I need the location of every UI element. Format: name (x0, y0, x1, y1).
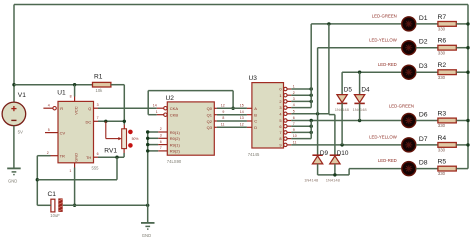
pin 5 stub U1 CV (45, 132, 58, 134)
svg-text:13: 13 (240, 116, 244, 120)
wire R6 to rail (456, 47, 468, 49)
node TH branch (115, 156, 118, 159)
wire red2 step up (348, 169, 350, 175)
wire Q2 to C (217, 120, 247, 122)
svg-text:Q3: Q3 (207, 125, 213, 130)
svg-text:555: 555 (92, 165, 100, 170)
wire top +5V rail (14, 4, 468, 6)
svg-text:2: 2 (279, 99, 281, 104)
ground GND mid (141, 222, 155, 224)
svg-text:12: 12 (221, 103, 225, 107)
svg-text:11: 11 (293, 141, 297, 145)
svg-text:LED-RED: LED-RED (378, 158, 397, 163)
svg-text:VCC: VCC (73, 106, 78, 115)
node out7 (310, 131, 313, 134)
svg-text:330: 330 (438, 148, 446, 153)
wire R0(2) (148, 137, 159, 139)
resistor R4 (438, 143, 456, 148)
battery V1 (2, 102, 26, 126)
diode D10 (330, 156, 340, 164)
svg-text:R1: R1 (94, 74, 103, 81)
wire C1 left (37, 204, 51, 206)
svg-text:9: 9 (293, 128, 295, 132)
svg-text:10uF: 10uF (50, 213, 60, 218)
svg-text:7: 7 (160, 146, 162, 150)
wire row2 yellow1 (318, 47, 402, 49)
svg-text:74LS90: 74LS90 (167, 159, 182, 164)
wire TH down (116, 157, 118, 180)
svg-text:R9(2): R9(2) (170, 149, 181, 154)
node DC wiper (104, 120, 107, 123)
wire red1 to D5 (341, 72, 343, 95)
svg-text:Q: Q (88, 106, 91, 111)
svg-text:GND: GND (73, 153, 78, 162)
node mid GND junction (146, 204, 149, 207)
wire D3 to R2 (416, 71, 438, 73)
LED D7 (402, 138, 416, 152)
pin 4 stub U1 R (43, 107, 53, 109)
svg-text:C: C (254, 119, 257, 124)
wire CKB feedback (148, 114, 157, 116)
wire D5 to row5 (341, 103, 343, 145)
wiper RV1 (105, 121, 107, 138)
wire red1 to D4 (359, 72, 361, 95)
pin 6 stub R9(1) (158, 144, 167, 146)
node out1 (310, 94, 313, 97)
wire D10 branch down (328, 24, 330, 115)
svg-text:7: 7 (293, 122, 295, 126)
svg-text:U2: U2 (166, 95, 175, 102)
pin 12 stub Q0 (214, 107, 217, 109)
wire right +5V rail (467, 5, 469, 169)
wire V1 positive to rail (13, 5, 15, 103)
LED D8 (402, 162, 416, 176)
pin stub RV1 bottom (123, 149, 125, 153)
svg-text:330: 330 (438, 75, 446, 80)
node out2 (310, 100, 313, 103)
wire Q3 to D (217, 126, 247, 128)
wire R2 to rail (456, 71, 468, 73)
wire row1 green1 (311, 23, 401, 25)
wire Q0 to A (217, 107, 247, 109)
svg-text:R3: R3 (438, 111, 447, 118)
svg-text:8: 8 (222, 116, 224, 120)
svg-text:4: 4 (293, 103, 295, 107)
node R0(2) (146, 137, 149, 140)
svg-text:74145: 74145 (248, 152, 260, 157)
svg-text:10k: 10k (96, 88, 104, 93)
node TR TH junction (36, 178, 39, 181)
svg-text:6: 6 (160, 140, 162, 144)
svg-text:LED-GREEN: LED-GREEN (389, 104, 414, 109)
svg-text:D: D (254, 125, 257, 130)
svg-text:330: 330 (438, 171, 446, 176)
wire U1 TH (98, 156, 124, 158)
wire V1 negative (13, 126, 15, 169)
svg-text:1N4148: 1N4148 (326, 178, 341, 183)
svg-text:A: A (254, 106, 257, 111)
wire U1 VCC up (74, 85, 76, 97)
wire D2 to R6 (416, 47, 438, 49)
LED D1 (402, 17, 416, 31)
pin 3 stub R0(2) (158, 137, 167, 139)
node DC RV1 top (123, 120, 126, 123)
node R9(2) (146, 149, 149, 152)
wire yellow1 bus down (317, 48, 319, 156)
wire R3 to rail (456, 120, 468, 122)
wire R5 to rail (456, 168, 468, 170)
control RV1 up button (128, 130, 133, 135)
svg-text:1: 1 (69, 169, 71, 173)
svg-text:5: 5 (279, 118, 281, 123)
node row3 D4 branch (358, 71, 361, 74)
node GND C1 junction (73, 204, 76, 207)
svg-text:2: 2 (293, 91, 295, 95)
svg-text:2: 2 (47, 151, 49, 155)
node rail R7 (466, 22, 469, 25)
svg-text:CKA: CKA (170, 106, 179, 111)
wire Q1 to B (217, 114, 247, 116)
wire U1 DC (98, 120, 124, 122)
svg-text:TR: TR (60, 153, 65, 158)
svg-text:R2: R2 (438, 62, 447, 69)
wire C1 to GND (63, 204, 148, 206)
svg-text:D6: D6 (419, 111, 428, 118)
svg-text:5: 5 (48, 128, 50, 132)
svg-text:7: 7 (279, 130, 281, 135)
svg-text:6: 6 (293, 116, 295, 120)
wire U1 TR left (37, 155, 50, 157)
capacitor C1 (51, 199, 55, 212)
svg-text:RV1: RV1 (104, 148, 117, 155)
wire output 7 (291, 131, 311, 133)
wire U2 reset rail (147, 132, 149, 205)
node R0(1) (146, 130, 149, 133)
svg-text:1: 1 (156, 110, 158, 114)
svg-text:3: 3 (160, 134, 162, 138)
diode D5 (337, 95, 347, 103)
wire D6 to R3 (416, 120, 438, 122)
svg-text:14: 14 (153, 103, 157, 107)
svg-text:D2: D2 (419, 39, 428, 46)
svg-text:DC: DC (86, 119, 92, 124)
node R9(1) (146, 143, 149, 146)
svg-text:7: 7 (97, 116, 99, 120)
wire D9 anode down (317, 164, 319, 175)
wire D1 to R7 (416, 23, 438, 25)
control RV1 down button (128, 143, 133, 148)
pin 14 stub B (247, 114, 252, 116)
node rail R3 (466, 119, 469, 122)
node out4 yellow1 (316, 112, 319, 115)
ground GND V1 (7, 167, 21, 169)
resistor R7 (438, 22, 456, 27)
svg-text:D10: D10 (337, 150, 349, 157)
node row1 D10 branch (327, 22, 330, 25)
node out6 (310, 125, 313, 128)
node out5 (310, 119, 313, 122)
node U1 VCC tap (73, 83, 76, 86)
svg-text:CV: CV (60, 130, 66, 135)
svg-text:CKB: CKB (170, 112, 179, 117)
wire green2 bus (310, 121, 312, 139)
svg-text:3: 3 (279, 105, 281, 110)
svg-text:11: 11 (221, 122, 225, 126)
wire R9(2) (148, 150, 159, 152)
svg-text:R7: R7 (438, 14, 447, 21)
pin 7 stub U1 DC (94, 120, 99, 122)
svg-text:GND: GND (8, 179, 17, 184)
svg-text:1: 1 (279, 93, 281, 98)
node out0 (310, 87, 313, 90)
pin stub RV1 top (123, 125, 125, 129)
pin 7 stub R9(2) (158, 150, 167, 152)
node rail R2 (466, 71, 469, 74)
LED D2 (402, 41, 416, 55)
pin 1 stub U1 GND (74, 163, 76, 168)
pin 8 stub U1 VCC (74, 97, 76, 102)
wire GND stem (147, 205, 149, 223)
node rail R4 (466, 143, 469, 146)
svg-text:330: 330 (438, 123, 446, 128)
diode D9 (312, 156, 322, 164)
node D10 anode (333, 173, 336, 176)
pin 8 stub Q2 (214, 120, 217, 122)
svg-text:9: 9 (222, 110, 224, 114)
svg-text:4: 4 (48, 103, 50, 107)
decoder U3 74145 body (252, 83, 284, 148)
svg-text:8: 8 (279, 136, 281, 141)
svg-text:LED-YELLOW: LED-YELLOW (369, 37, 398, 42)
node Q0 feedback (231, 107, 234, 110)
svg-text:D7: D7 (419, 136, 428, 143)
wire U1 GND down (74, 168, 76, 206)
svg-text:LED-GREEN: LED-GREEN (372, 14, 397, 19)
svg-text:1: 1 (293, 85, 295, 89)
wire output 5 row4 green2 (291, 120, 401, 122)
pin 15 stub A (247, 107, 252, 109)
resistor R6 (438, 45, 456, 50)
svg-text:D8: D8 (419, 160, 428, 167)
svg-text:1N4148: 1N4148 (304, 178, 319, 183)
pin 12 stub D (247, 126, 252, 128)
svg-text:3: 3 (97, 103, 99, 107)
svg-text:D3: D3 (419, 63, 428, 70)
node rail R6 (466, 46, 469, 49)
wire R4 to rail (456, 144, 468, 146)
pin 1 stub CKB (157, 114, 164, 116)
wire RV1 bottom to TH (123, 153, 125, 157)
svg-text:U1: U1 (57, 90, 66, 97)
svg-text:15: 15 (240, 103, 244, 107)
svg-text:D5: D5 (344, 87, 353, 94)
resistor R3 (438, 118, 456, 123)
wire output 2 (291, 100, 311, 102)
node V1 branch (12, 83, 15, 86)
wire red2 anode bus (318, 174, 350, 176)
svg-text:LED-RED: LED-RED (378, 62, 397, 67)
svg-text:3: 3 (293, 97, 295, 101)
svg-text:R4: R4 (438, 135, 447, 142)
wire TR down to C1 (36, 156, 38, 206)
svg-text:6: 6 (279, 124, 281, 129)
wire D4 to row4 (359, 103, 361, 120)
pin 13 stub C (247, 120, 252, 122)
svg-text:9: 9 (279, 143, 281, 148)
wire R1 to RV1 top (111, 84, 124, 86)
svg-text:14: 14 (240, 110, 244, 114)
diode D4 (354, 95, 364, 103)
svg-text:D1: D1 (419, 15, 428, 22)
svg-text:10: 10 (293, 134, 297, 138)
potentiometer RV1 body (122, 129, 127, 149)
svg-text:R9(1): R9(1) (170, 142, 181, 147)
pin 3 stub U1 Q (94, 107, 99, 109)
svg-text:5: 5 (293, 109, 295, 113)
svg-text:C1: C1 (48, 191, 57, 198)
wire R0(1) (148, 131, 159, 133)
wire output 0 (291, 88, 311, 90)
wire row3 red1 (342, 71, 401, 73)
wire R9(1) (148, 144, 159, 146)
wire green1 bus up (310, 24, 312, 108)
svg-text:5V: 5V (18, 130, 23, 135)
svg-text:LED-YELLOW: LED-YELLOW (369, 135, 398, 140)
svg-text:D4: D4 (361, 87, 370, 94)
wire TH across to TR (37, 179, 117, 181)
node D4 to row4 (358, 119, 361, 122)
svg-text:TH: TH (86, 155, 91, 160)
wire output 4 (291, 113, 329, 115)
svg-text:R5: R5 (438, 159, 447, 166)
LED D3 (402, 65, 416, 79)
wire row6 red2 (349, 168, 401, 170)
pin 2 stub U1 TR (51, 155, 59, 157)
wire D7 to R4 (416, 144, 438, 146)
svg-text:R6: R6 (438, 38, 447, 45)
wire VCC branch to R1 (14, 84, 93, 86)
svg-text:V1: V1 (18, 92, 26, 99)
svg-text:330: 330 (438, 50, 446, 55)
resistor R5 (438, 166, 456, 171)
resistor R2 (438, 70, 456, 75)
wire output 3 (291, 107, 311, 109)
op-amp U1 555 body (58, 101, 94, 162)
wire D10 anode down (334, 164, 336, 175)
wire output 9 row5 yellow2 (291, 144, 401, 146)
counter U2 74LS90 body (167, 102, 214, 155)
pin 9 stub Q1 (214, 114, 217, 116)
node D5 to row5 (340, 143, 343, 146)
LED D6 (402, 114, 416, 128)
svg-text:R0(1): R0(1) (170, 130, 181, 135)
wire R7 to rail (456, 23, 468, 25)
svg-text:U3: U3 (249, 75, 258, 82)
svg-text:2: 2 (160, 127, 162, 131)
pin 2 stub R0(1) (158, 131, 167, 133)
svg-text:Q2: Q2 (207, 119, 213, 124)
svg-text:R: R (60, 106, 63, 111)
pin 6 stub U1 TH (94, 156, 99, 158)
svg-text:R0(2): R0(2) (170, 136, 181, 141)
wire D8 to R5 (416, 168, 438, 170)
svg-text:330: 330 (438, 27, 446, 32)
svg-text:Q1: Q1 (207, 113, 213, 118)
svg-text:6: 6 (97, 152, 99, 156)
svg-text:B: B (254, 112, 257, 117)
pin 14 stub CKA (157, 107, 164, 109)
svg-text:12: 12 (240, 122, 244, 126)
pin 11 stub Q3 (214, 126, 217, 128)
svg-text:GND: GND (142, 233, 151, 238)
wire U1 Q to U2 CKA (98, 107, 157, 109)
wire output 1 (291, 94, 311, 96)
wire output 8 (291, 138, 311, 140)
svg-text:D9: D9 (320, 150, 329, 157)
svg-text:8: 8 (70, 94, 72, 98)
resistor R1 (93, 82, 111, 87)
wire output 6 (291, 125, 311, 127)
svg-text:50%: 50% (132, 137, 139, 141)
svg-text:Q0: Q0 (207, 106, 213, 111)
